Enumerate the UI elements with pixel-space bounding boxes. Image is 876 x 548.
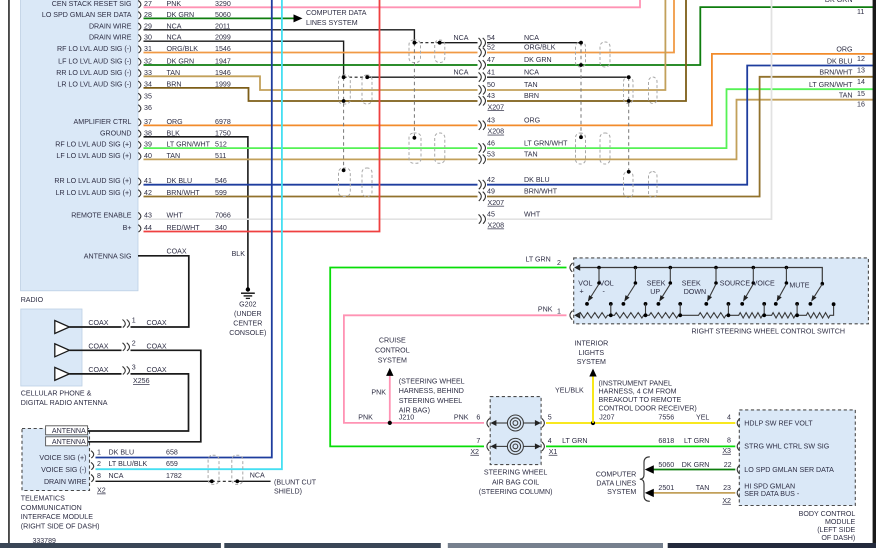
svg-text:(BLUNT CUT: (BLUNT CUT xyxy=(274,478,317,486)
svg-text:SEEK: SEEK xyxy=(647,279,666,287)
svg-text:13: 13 xyxy=(857,67,865,75)
svg-text:STEERING WHEEL: STEERING WHEEL xyxy=(399,397,463,405)
svg-text:X256: X256 xyxy=(133,377,150,385)
svg-text:2: 2 xyxy=(557,259,561,267)
svg-text:LT GRN: LT GRN xyxy=(684,437,709,445)
svg-text:LT GRN: LT GRN xyxy=(525,255,550,263)
svg-text:ANTENNA: ANTENNA xyxy=(52,427,86,435)
svg-text:X2: X2 xyxy=(470,448,479,456)
svg-text:43: 43 xyxy=(487,92,495,100)
svg-text:(STEERING WHEEL: (STEERING WHEEL xyxy=(399,377,465,385)
svg-text:RF LO LVL AUD SIG (-): RF LO LVL AUD SIG (-) xyxy=(57,45,132,53)
svg-text:+: + xyxy=(580,287,584,295)
svg-text:J210: J210 xyxy=(399,413,414,421)
svg-text:16: 16 xyxy=(857,101,865,109)
svg-text:G202: G202 xyxy=(239,300,256,308)
svg-text:HDLP SW REF VOLT: HDLP SW REF VOLT xyxy=(744,419,813,427)
svg-text:50: 50 xyxy=(487,81,495,89)
svg-text:J207: J207 xyxy=(599,413,614,421)
svg-text:2: 2 xyxy=(132,340,136,348)
svg-text:ANTENNA: ANTENNA xyxy=(52,438,86,446)
svg-text:7: 7 xyxy=(476,437,480,445)
svg-text:12: 12 xyxy=(857,55,865,63)
svg-text:MODULE: MODULE xyxy=(825,518,856,526)
svg-text:COMMUNICATION: COMMUNICATION xyxy=(21,504,82,512)
svg-text:RR LO LVL AUD SIG (+): RR LO LVL AUD SIG (+) xyxy=(54,177,131,185)
svg-text:(RIGHT SIDE OF DASH): (RIGHT SIDE OF DASH) xyxy=(21,523,100,531)
svg-text:X2: X2 xyxy=(722,497,731,505)
svg-text:DIGITAL RADIO ANTENNA: DIGITAL RADIO ANTENNA xyxy=(21,399,108,407)
svg-text:DK BLU: DK BLU xyxy=(109,448,135,456)
svg-text:DK BLU: DK BLU xyxy=(827,57,853,65)
svg-text:7556: 7556 xyxy=(658,413,674,421)
svg-text:X208: X208 xyxy=(488,222,505,230)
svg-text:BRN: BRN xyxy=(524,92,539,100)
svg-text:6818: 6818 xyxy=(658,437,674,445)
svg-text:WHT: WHT xyxy=(524,210,541,218)
svg-text:DOWN: DOWN xyxy=(684,288,706,296)
svg-text:BODY CONTROL: BODY CONTROL xyxy=(799,510,856,518)
svg-text:659: 659 xyxy=(166,460,178,468)
svg-text:8: 8 xyxy=(97,472,101,480)
svg-text:PNK: PNK xyxy=(358,413,373,421)
svg-text:DK GRN: DK GRN xyxy=(682,461,710,469)
svg-text:3: 3 xyxy=(132,363,136,371)
svg-text:OF DASH): OF DASH) xyxy=(821,534,855,542)
svg-text:RADIO: RADIO xyxy=(21,296,44,304)
svg-text:SYSTEM: SYSTEM xyxy=(607,488,636,496)
svg-text:LIGHTS: LIGHTS xyxy=(578,349,604,357)
svg-text:CRUISE: CRUISE xyxy=(379,336,406,344)
svg-text:X208: X208 xyxy=(488,128,505,136)
svg-text:STEERING WHEEL: STEERING WHEEL xyxy=(484,468,548,476)
svg-text:(INSTRUMENT PANEL: (INSTRUMENT PANEL xyxy=(599,379,672,387)
svg-text:GROUND: GROUND xyxy=(100,129,132,137)
svg-text:LT BLU/BLK: LT BLU/BLK xyxy=(109,460,148,468)
svg-text:REMOTE ENABLE: REMOTE ENABLE xyxy=(71,212,132,220)
svg-text:RR LO LVL AUD SIG (-): RR LO LVL AUD SIG (-) xyxy=(56,69,131,77)
svg-text:PNK: PNK xyxy=(454,413,469,421)
svg-text:BRN/WHT: BRN/WHT xyxy=(819,69,853,77)
svg-text:NCA: NCA xyxy=(109,472,124,480)
svg-text:49: 49 xyxy=(487,188,495,196)
svg-text:COAX: COAX xyxy=(167,247,187,255)
svg-text:MUTE: MUTE xyxy=(789,281,809,289)
svg-text:TAN: TAN xyxy=(524,151,538,159)
svg-text:1782: 1782 xyxy=(166,472,182,480)
svg-text:COAX: COAX xyxy=(147,366,167,374)
svg-text:(UNDER: (UNDER xyxy=(234,310,262,318)
svg-text:45: 45 xyxy=(487,210,495,218)
svg-text:BREAKOUT TO REMOTE: BREAKOUT TO REMOTE xyxy=(599,396,682,404)
svg-text:DK GRN: DK GRN xyxy=(825,0,853,4)
svg-text:41: 41 xyxy=(487,68,495,76)
svg-text:52: 52 xyxy=(487,44,495,52)
svg-text:YEL: YEL xyxy=(696,413,709,421)
svg-text:22: 22 xyxy=(724,461,732,469)
svg-text:1: 1 xyxy=(97,448,101,456)
svg-text:14: 14 xyxy=(857,78,865,86)
svg-text:CONTROL DOOR RECEIVER): CONTROL DOOR RECEIVER) xyxy=(599,404,697,412)
svg-text:TAN: TAN xyxy=(839,92,853,100)
svg-text:NCA: NCA xyxy=(524,34,539,42)
svg-text:AMPLIFIER CTRL: AMPLIFIER CTRL xyxy=(74,118,132,126)
svg-text:LR LO LVL AUD SIG (-): LR LO LVL AUD SIG (-) xyxy=(57,80,131,88)
svg-text:DRAIN WIRE: DRAIN WIRE xyxy=(44,478,87,486)
svg-text:ANTENNA SIG: ANTENNA SIG xyxy=(84,252,132,260)
svg-text:NCA: NCA xyxy=(454,34,469,42)
svg-text:DK BLU: DK BLU xyxy=(524,176,550,184)
svg-text:(STEERING COLUMN): (STEERING COLUMN) xyxy=(479,488,553,496)
svg-text:4: 4 xyxy=(727,413,731,421)
svg-text:HARNESS, BEHIND: HARNESS, BEHIND xyxy=(399,387,464,395)
svg-text:COAX: COAX xyxy=(147,319,167,327)
svg-text:8: 8 xyxy=(727,436,731,444)
svg-text:COAX: COAX xyxy=(88,319,108,327)
svg-text:43: 43 xyxy=(487,117,495,125)
svg-text:TAN: TAN xyxy=(696,484,710,492)
svg-text:VOICE SIG (+): VOICE SIG (+) xyxy=(39,454,86,462)
svg-text:46: 46 xyxy=(487,139,495,147)
svg-text:NCA: NCA xyxy=(454,68,469,76)
svg-text:X3: X3 xyxy=(722,447,731,455)
svg-text:BLK: BLK xyxy=(232,250,246,258)
svg-text:LF LO LVL AUD SIG (-): LF LO LVL AUD SIG (-) xyxy=(58,58,131,66)
svg-text:NCA: NCA xyxy=(250,472,265,480)
svg-text:2: 2 xyxy=(97,460,101,468)
svg-text:RIGHT STEERING WHEEL CONTROL S: RIGHT STEERING WHEEL CONTROL SWITCH xyxy=(692,327,845,335)
svg-text:UP: UP xyxy=(650,288,660,296)
svg-text:SYSTEM: SYSTEM xyxy=(378,356,407,364)
svg-text:BRN/WHT: BRN/WHT xyxy=(524,188,558,196)
svg-text:35: 35 xyxy=(144,93,152,101)
svg-text:CEN STACK RESET SIG: CEN STACK RESET SIG xyxy=(52,0,132,8)
svg-text:SER DATA BUS -: SER DATA BUS - xyxy=(744,490,800,498)
svg-text:DK GRN: DK GRN xyxy=(524,56,552,64)
svg-text:(LEFT SIDE: (LEFT SIDE xyxy=(817,526,855,534)
svg-text:X2: X2 xyxy=(97,487,106,495)
svg-text:LT GRN/WHT: LT GRN/WHT xyxy=(809,81,853,89)
svg-text:LT GRN: LT GRN xyxy=(562,437,587,445)
svg-text:NCA: NCA xyxy=(524,68,539,76)
svg-text:53: 53 xyxy=(487,151,495,159)
svg-text:4: 4 xyxy=(548,437,552,445)
svg-text:RF LO LVL AUD SIG (+): RF LO LVL AUD SIG (+) xyxy=(55,141,131,149)
svg-text:DRAIN WIRE: DRAIN WIRE xyxy=(89,22,132,30)
svg-text:COAX: COAX xyxy=(88,366,108,374)
svg-text:HARNESS, 4 CM FROM: HARNESS, 4 CM FROM xyxy=(599,388,677,396)
svg-text:ORG: ORG xyxy=(836,46,852,54)
svg-text:CENTER: CENTER xyxy=(233,320,262,328)
svg-text:STRG WHL CTRL SW SIG: STRG WHL CTRL SW SIG xyxy=(744,443,829,451)
svg-text:B+: B+ xyxy=(123,224,132,232)
svg-text:CONTROL: CONTROL xyxy=(375,346,410,354)
svg-text:INTERIOR: INTERIOR xyxy=(574,340,608,348)
svg-text:11: 11 xyxy=(857,8,864,16)
svg-text:COAX: COAX xyxy=(88,343,108,351)
svg-text:COMPUTER: COMPUTER xyxy=(596,471,637,479)
svg-text:47: 47 xyxy=(487,56,495,64)
svg-text:YEL/BLK: YEL/BLK xyxy=(555,386,584,394)
svg-text:CELLULAR PHONE &: CELLULAR PHONE & xyxy=(21,389,92,397)
svg-text:6: 6 xyxy=(476,413,480,421)
svg-text:23: 23 xyxy=(723,484,731,492)
svg-text:5: 5 xyxy=(548,413,552,421)
svg-text:15: 15 xyxy=(857,90,865,98)
svg-text:SHIELD): SHIELD) xyxy=(274,488,302,496)
svg-text:2501: 2501 xyxy=(658,484,674,492)
svg-text:PNK: PNK xyxy=(371,388,386,396)
svg-text:DRAIN WIRE: DRAIN WIRE xyxy=(89,34,132,42)
svg-text:TELEMATICS: TELEMATICS xyxy=(21,494,65,502)
svg-text:AIR BAG COIL: AIR BAG COIL xyxy=(492,478,539,486)
svg-text:X207: X207 xyxy=(488,103,505,111)
svg-text:CONSOLE): CONSOLE) xyxy=(229,329,266,337)
svg-text:SEEK: SEEK xyxy=(682,279,701,287)
svg-text:ORG: ORG xyxy=(524,117,540,125)
svg-text:LF LO LVL AUD SIG (+): LF LO LVL AUD SIG (+) xyxy=(56,152,131,160)
svg-text:SOURCE: SOURCE xyxy=(720,279,751,287)
svg-text:SYSTEM: SYSTEM xyxy=(577,358,606,366)
svg-text:COMPUTER DATA: COMPUTER DATA xyxy=(306,9,367,17)
svg-text:TAN: TAN xyxy=(524,81,538,89)
svg-text:LO SPD GMLAN SER DATA: LO SPD GMLAN SER DATA xyxy=(744,466,834,474)
svg-text:ORG/BLK: ORG/BLK xyxy=(524,44,556,52)
svg-text:VOICE: VOICE xyxy=(753,279,775,287)
svg-text:54: 54 xyxy=(487,34,495,42)
svg-text:COAX: COAX xyxy=(147,343,167,351)
svg-text:PNK: PNK xyxy=(538,305,553,313)
svg-text:LT GRN/WHT: LT GRN/WHT xyxy=(524,139,568,147)
svg-text:1: 1 xyxy=(557,308,561,316)
svg-text:LINES SYSTEM: LINES SYSTEM xyxy=(306,19,358,27)
svg-text:42: 42 xyxy=(487,176,495,184)
svg-text:X1: X1 xyxy=(549,448,558,456)
svg-text:1: 1 xyxy=(132,316,136,324)
svg-text:36: 36 xyxy=(144,104,152,112)
svg-text:INTERFACE MODULE: INTERFACE MODULE xyxy=(21,513,93,521)
svg-text:5060: 5060 xyxy=(658,461,674,469)
svg-text:VOICE SIG (-): VOICE SIG (-) xyxy=(41,466,86,474)
svg-text:LR LO LVL AUD SIG (+): LR LO LVL AUD SIG (+) xyxy=(56,189,132,197)
svg-text:VOL: VOL xyxy=(600,279,614,287)
svg-text:LO SPD GMLAN SER DATA: LO SPD GMLAN SER DATA xyxy=(42,11,132,19)
svg-text:VOL: VOL xyxy=(578,279,592,287)
svg-text:X207: X207 xyxy=(488,199,505,207)
svg-text:DATA LINES: DATA LINES xyxy=(596,479,636,487)
svg-text:658: 658 xyxy=(166,448,178,456)
